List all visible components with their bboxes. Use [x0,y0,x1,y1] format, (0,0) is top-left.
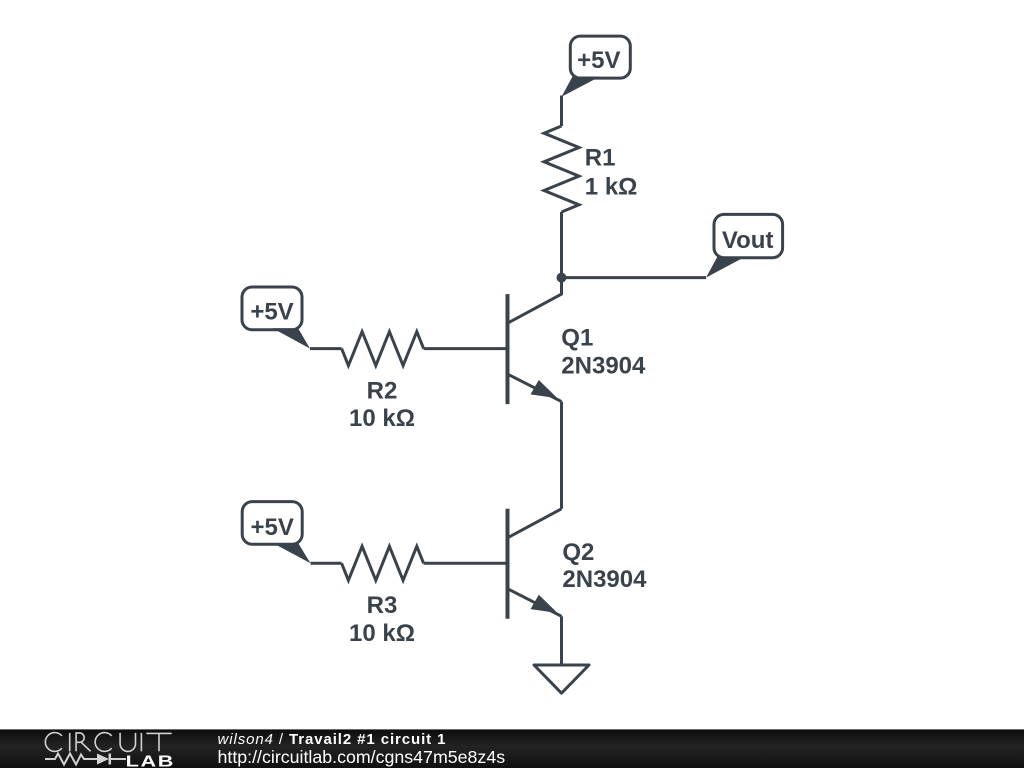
transistor Q1 2N3904 (NPN) [508,278,562,405]
svg-text:Q1: Q1 [561,324,593,351]
wire: node to Vout label [562,276,707,279]
svg-text:R3: R3 [367,592,398,619]
wire: R1 bottom to output node [560,212,563,278]
transistor Q2 2N3904 (NPN) [508,509,562,619]
resistor R3 [342,546,424,580]
wire: Q2 emitter to ground [560,616,563,665]
wire: Q1 emitter to Q2 collector [560,402,563,509]
svg-text:1 kΩ: 1 kΩ [585,173,638,200]
wire: +5V to R3 left [311,562,342,565]
power +5V supply for R3 [242,502,310,564]
CircuitLab logo wordmark CIRCUIT [45,733,171,752]
ground [534,665,589,693]
wire: R3 to Q2 base [424,562,506,565]
svg-text:+5V: +5V [251,514,294,541]
CircuitLab logo diode symbol [97,754,126,765]
resistor R2 [342,332,424,366]
net label Vout [706,214,783,277]
resistor R1 [544,126,579,212]
svg-text:http://circuitlab.com/cgns47m5: http://circuitlab.com/cgns47m5e8z4s [218,747,506,767]
svg-text:R1: R1 [585,145,616,172]
svg-text:10 kΩ: 10 kΩ [349,620,415,647]
footer bar [0,729,1024,768]
power +5V supply for R2 [242,287,310,349]
wire: +5V to R2 left [310,347,342,350]
svg-text:LAB: LAB [126,753,175,768]
svg-text:Vout: Vout [722,227,774,254]
node junction: Vout node [557,273,567,283]
power +5V supply for R1 [562,36,631,97]
svg-text:10 kΩ: 10 kΩ [349,405,415,432]
svg-text:R2: R2 [367,378,398,405]
svg-text:Q2: Q2 [562,539,594,566]
svg-text:2N3904: 2N3904 [562,566,647,593]
wire: R2 to Q1 base [424,347,506,350]
svg-text:+5V: +5V [250,299,293,326]
CircuitLab logo resistor squiggle [45,754,97,765]
svg-text:+5V: +5V [577,47,620,74]
svg-text:wilson4 / Travail2 #1 circuit: wilson4 / Travail2 #1 circuit 1 [218,731,447,748]
wire: +5V to R1 top [560,96,563,127]
svg-text:2N3904: 2N3904 [561,353,646,380]
